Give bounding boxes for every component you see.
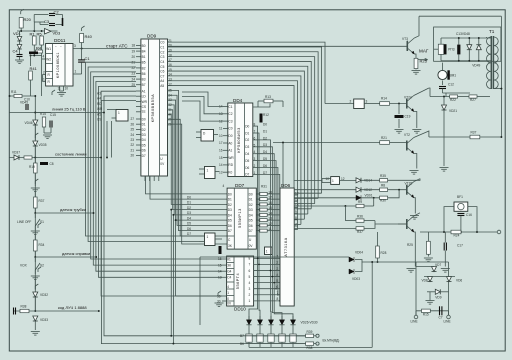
svg-text:R38: R38	[21, 305, 27, 309]
svg-text:D7: D7	[245, 173, 249, 177]
wire R1/R5 bottoms	[33, 45, 35, 56]
svg-text:−: −	[60, 45, 62, 49]
wire bus extension to DD7 C pin	[168, 119, 228, 236]
svg-text:C8: C8	[50, 162, 54, 166]
wire gate DD8.2 stubs	[199, 235, 205, 237]
svg-text:ЗК: ЗК	[227, 264, 231, 268]
svg-text:C0: C0	[228, 127, 232, 131]
capacitor C8 black	[40, 162, 48, 165]
wire VT3 collector to rail	[414, 16, 419, 38]
wire left bus bottom line b	[101, 101, 305, 344]
wire left drop x30.5	[30, 56, 32, 67]
wire LED feed vertical 1	[259, 264, 260, 319]
wire C12 down to row	[442, 89, 444, 93]
wire R41 down	[30, 80, 32, 96]
wire chain3	[34, 235, 36, 241]
wire bus C4 from DD9 right with corner	[168, 61, 312, 208]
wire датчик трубки row	[34, 208, 36, 213]
svg-text:10: 10	[219, 134, 223, 138]
svg-text:R27: R27	[470, 98, 476, 102]
svg-text:DD9: DD9	[147, 34, 157, 39]
optocoupler U1	[246, 334, 252, 342]
resistor R15b	[422, 309, 431, 312]
svg-text:D6: D6	[187, 227, 191, 231]
svg-text:C2: C2	[54, 10, 60, 15]
svg-text:В6: В6	[240, 342, 244, 346]
svg-text:D4: D4	[187, 216, 191, 220]
wire data bus vertical 0 from DD9 lower right	[168, 90, 228, 230]
ground bridge	[426, 301, 435, 305]
svg-text:18: 18	[132, 44, 136, 48]
optocoupler U3	[268, 334, 274, 342]
power flag above R40	[82, 26, 85, 31]
wire LED feed vertical 4	[274, 283, 293, 320]
resistor R39	[306, 334, 314, 337]
svg-text:D7: D7	[228, 229, 232, 233]
svg-text:555ИР13: 555ИР13	[238, 208, 242, 228]
svg-text:C13VD48: C13VD48	[456, 32, 470, 36]
capacitor C13 black	[457, 45, 460, 55]
svg-text:D1: D1	[263, 129, 267, 133]
svg-text:C3: C3	[160, 55, 164, 59]
resistor R28	[376, 246, 380, 258]
wire VT27 collector	[414, 213, 420, 216]
wire старт АТС continuation to VT3 base	[168, 45, 408, 47]
wire below C4	[19, 57, 21, 61]
svg-text:D7: D7	[187, 232, 191, 236]
wire chain VD46 down	[34, 125, 36, 140]
op IC DD4 body	[228, 103, 253, 177]
wire R30 up join	[388, 190, 400, 198]
wire diode chain left	[19, 31, 21, 37]
wire bus C6 from DD9 right with corner	[168, 71, 305, 219]
LED VD30	[290, 320, 295, 325]
svg-text:C15: C15	[50, 113, 56, 117]
wire vertical x345 down	[344, 206, 346, 221]
svg-text:DD10: DD10	[234, 307, 246, 312]
wire gate DD2.1 out	[340, 180, 357, 182]
resistor R31.7	[256, 230, 260, 232]
diode VD33	[33, 316, 38, 321]
svg-text:D3: D3	[228, 208, 232, 212]
terminal circle G1	[316, 334, 319, 337]
wire node y55.5	[31, 55, 42, 57]
svg-text:DD7: DD7	[235, 183, 245, 188]
svg-text:24: 24	[132, 77, 136, 81]
wire bus C5 from DD9 right with corner	[168, 66, 308, 214]
svg-text:R31: R31	[261, 185, 267, 189]
svg-text:LINE: LINE	[411, 320, 418, 324]
wire VT3 emitter to MAG node	[414, 54, 416, 60]
resistor R35	[380, 179, 388, 182]
diode VD32	[33, 292, 38, 297]
wire bus vertical 1 into DD6 region	[294, 192, 321, 194]
svg-text:C17: C17	[457, 244, 463, 248]
wire C2/C3 connections	[34, 14, 48, 16]
wire DD10 bottom pin row extend	[176, 295, 222, 297]
svg-text:7: 7	[277, 291, 279, 295]
svg-text:15: 15	[219, 156, 223, 160]
svg-text:VD03: VD03	[352, 277, 360, 281]
wire DD9 bottom pin to DD7 row1	[150, 176, 227, 199]
wire DD5 verticals down	[106, 121, 108, 158]
op IC DD10 body	[227, 256, 254, 306]
svg-text:C1: C1	[228, 105, 232, 109]
svg-text:D4: D4	[249, 213, 253, 217]
svg-text:CS: CS	[97, 118, 101, 122]
wire left bus line 0 from DD9	[86, 62, 200, 236]
capacitor C9 black	[29, 52, 38, 55]
logic gate DD5	[116, 110, 128, 122]
diode VD5	[432, 267, 437, 272]
resistor R14	[380, 102, 390, 106]
wire left bus line 2 from DD9	[91, 72, 222, 259]
resistor R21	[380, 141, 390, 145]
svg-text:3: 3	[249, 287, 251, 291]
svg-text:11: 11	[219, 127, 223, 131]
svg-text:R14: R14	[381, 97, 387, 101]
diode VD48	[467, 45, 472, 50]
svg-text:26: 26	[131, 122, 135, 126]
svg-text:КР580ВИ53: КР580ВИ53	[237, 127, 241, 153]
svg-text:ЗК: ЗК	[228, 244, 232, 248]
svg-text:CS: CS	[142, 105, 146, 109]
svg-text:5: 5	[249, 275, 251, 279]
svg-text:3: 3	[74, 44, 76, 48]
wire R20 to node	[20, 28, 22, 31]
wire VT26 emitter	[414, 198, 416, 214]
svg-text:R22: R22	[450, 98, 456, 102]
wire VT26 collector	[414, 179, 420, 182]
svg-text:D4: D4	[245, 152, 249, 156]
resistor R31.1	[256, 198, 260, 200]
transistor VT27	[407, 216, 414, 232]
svg-text:14: 14	[219, 163, 223, 167]
wire bus C0 from DD9 right with corner	[168, 42, 326, 103]
svg-text:R20: R20	[24, 17, 32, 22]
resistor R40	[80, 34, 84, 43]
wire bundle extension down left of DD10 a	[170, 210, 172, 336]
svg-text:D6: D6	[249, 224, 253, 228]
wire bundle extension down left of DD10 c	[175, 220, 177, 296]
resistor R41	[29, 71, 33, 80]
wire bus vertical 9 into DD6 region	[293, 234, 295, 236]
svg-text:D0: D0	[187, 195, 191, 199]
svg-text:5: 5	[254, 143, 256, 147]
svg-text:3: 3	[254, 157, 256, 161]
wire left chain main vertical	[34, 96, 36, 311]
svg-text:D0: D0	[249, 192, 253, 196]
wire VD12 row	[294, 189, 356, 191]
svg-text:0: 0	[227, 297, 229, 301]
wire R8 to VT26 base	[388, 189, 407, 191]
wire data bus vertical 2 from DD9 lower right	[168, 100, 228, 220]
wire DD10 pin row 0 to DD6	[254, 257, 280, 259]
wire chain5	[34, 322, 36, 331]
wire DD10 pin row 2 to DD6	[254, 269, 280, 271]
wire left bus line 3 from DD9	[93, 77, 222, 265]
wire DD10 pin row 6 to DD6	[254, 294, 280, 296]
svg-text:R35: R35	[380, 174, 386, 178]
wire VT24 collector to R22 row	[429, 88, 430, 97]
resistor R31.5	[256, 219, 260, 221]
svg-text:D0: D0	[228, 192, 232, 196]
wire bus C2 from DD9 right with corner	[168, 52, 319, 199]
wire diode rows	[416, 266, 434, 268]
wire chain middle	[34, 146, 36, 163]
svg-text:D3: D3	[187, 211, 191, 215]
resistor R38 chain	[20, 309, 29, 312]
optocoupler U5	[290, 334, 296, 342]
ground C17	[441, 269, 450, 273]
svg-text:A0: A0	[228, 141, 232, 145]
svg-text:D5: D5	[187, 222, 191, 226]
wire bus C8 from DD9 right with corner	[168, 81, 298, 230]
svg-text:VD3: VD3	[53, 31, 62, 36]
capacitor C17	[444, 243, 446, 251]
svg-text:B7: B7	[142, 83, 146, 87]
wire линия row	[10, 112, 105, 114]
svg-text:10: 10	[65, 87, 69, 91]
svg-text:15: 15	[268, 206, 272, 210]
resistor R8	[380, 188, 388, 191]
svg-text:36: 36	[217, 294, 221, 298]
wire DD9 bottom pin to DD7 row0	[146, 176, 228, 194]
microphone BM1 electrode bar	[447, 70, 449, 79]
svg-text:VD04: VD04	[355, 251, 363, 255]
resistor R31.2	[256, 203, 260, 205]
wire VT2 collector	[414, 131, 429, 138]
wire bus DB6 vertical right of DD7	[257, 168, 278, 295]
resistor R38b	[356, 227, 364, 230]
svg-text:15: 15	[218, 263, 222, 267]
diode VD12	[356, 187, 361, 192]
capacitor C14 chain	[14, 308, 16, 315]
svg-text:КР1008ВЖ1: КР1008ВЖ1	[56, 52, 60, 78]
buffer gate DD1	[45, 29, 52, 35]
wire chain below R19	[34, 173, 36, 186]
svg-text:R25: R25	[407, 243, 413, 247]
resistor R38 output	[306, 342, 314, 345]
svg-text:D7: D7	[142, 154, 146, 158]
logic gate DD8.2	[205, 233, 216, 246]
svg-text:3: 3	[277, 267, 279, 271]
diode VD01 black	[356, 195, 361, 200]
svg-text:VD7: VD7	[435, 263, 441, 267]
svg-text:C1: C1	[85, 56, 91, 61]
svg-text:22: 22	[131, 143, 135, 147]
ground below R23	[415, 68, 417, 71]
wire chain4	[34, 280, 36, 290]
svg-text:C3: C3	[228, 119, 232, 123]
svg-text:R13: R13	[265, 95, 271, 99]
svg-text:−: −	[55, 45, 57, 49]
svg-text:DD6: DD6	[281, 183, 291, 188]
wire bus vertical 6 into DD6 region	[294, 218, 304, 220]
wire DD10 bottom-left pins	[222, 295, 227, 297]
wire left bus bottom line a	[104, 96, 306, 336]
diode VD04 black	[349, 257, 354, 262]
wire row y257 to diodes	[200, 256, 349, 258]
wire DD10 pin row 3 to DD6	[254, 276, 280, 278]
svg-text:VD26-VD30: VD26-VD30	[301, 321, 318, 325]
wire DD10 pin row 5 to DD6	[254, 288, 280, 290]
wire left bus line 1 from DD9	[88, 67, 199, 241]
wire data bus vertical 3 from DD9 lower right	[168, 105, 228, 215]
svg-text:код ЛУЧ 1 8888: код ЛУЧ 1 8888	[58, 305, 87, 310]
wire датчик справки row	[34, 251, 36, 257]
wire to VT27 base	[375, 223, 407, 225]
svg-text:C2: C2	[228, 112, 232, 116]
svg-text:T1: T1	[489, 29, 495, 34]
svg-text:D3: D3	[142, 133, 146, 137]
svg-text:VD46: VD46	[25, 121, 33, 125]
svg-text:W2: W2	[46, 58, 51, 62]
svg-text:4: 4	[223, 184, 225, 188]
diode VD46	[33, 120, 38, 125]
wire bridge bottom row	[416, 310, 449, 312]
wire bus C1 from DD9 right with corner	[168, 47, 322, 193]
svg-text:TE: TE	[142, 110, 146, 114]
svg-text:C12: C12	[448, 83, 454, 87]
microphone BM1	[442, 63, 444, 71]
wire T1 primary top in	[486, 37, 488, 38]
svg-text:VD1: VD1	[13, 31, 22, 36]
svg-text:R19: R19	[29, 165, 35, 169]
svg-text:D5: D5	[245, 159, 249, 163]
capacitor C2	[49, 14, 55, 16]
ground VT27	[407, 269, 416, 273]
svg-text:10: 10	[326, 177, 330, 181]
wire right side drop from supply rail	[500, 16, 502, 137]
wire bus vertical 7 into DD6 region	[294, 223, 301, 225]
wire R36 row	[345, 220, 356, 222]
transformer T1 primary winding	[487, 37, 491, 89]
svg-text:1: 1	[249, 299, 251, 303]
wire gate DD8.1 stubs	[199, 168, 205, 170]
wire relay left stub	[434, 48, 439, 50]
wires DD4 upper-left feeds	[182, 92, 223, 107]
power flag chain2	[35, 179, 38, 184]
svg-text:D0: D0	[228, 134, 232, 138]
svg-text:VOX: VOX	[20, 264, 28, 268]
wire bus extension to DD7 ZK pin	[168, 124, 228, 244]
wire DD11 vertical feed x41.6	[41, 59, 43, 96]
svg-text:D4: D4	[142, 138, 146, 142]
svg-text:16: 16	[268, 201, 272, 205]
svg-text:датчик трубки: датчик трубки	[60, 207, 86, 212]
svg-text:A5: A5	[160, 84, 164, 88]
svg-text:VD8: VD8	[422, 279, 428, 283]
wire amplifier row y103.5	[325, 103, 354, 105]
svg-text:D6: D6	[228, 224, 232, 228]
svg-text:R21: R21	[381, 136, 387, 140]
wire R35 to VT26 collector	[388, 179, 420, 181]
resistor R23	[414, 58, 418, 68]
wire bus DB3 vertical right of DD7	[257, 147, 272, 277]
svg-text:A4: A4	[97, 97, 101, 101]
svg-text:R38: R38	[307, 346, 313, 350]
wire код row	[34, 297, 36, 311]
LED VD28	[268, 320, 273, 325]
svg-text:1: 1	[254, 171, 256, 175]
power flag DD10	[218, 291, 221, 296]
svg-text:D0: D0	[142, 117, 146, 121]
diode VD37	[14, 155, 19, 160]
svg-text:B6: B6	[142, 72, 146, 76]
resistor R22	[450, 95, 458, 98]
svg-text:VD01: VD01	[365, 194, 373, 198]
wire bus vertical 3 into DD6 region	[294, 203, 314, 205]
svg-text:4: 4	[43, 55, 45, 59]
svg-text:1: 1	[332, 179, 334, 183]
ground VT26	[410, 216, 419, 220]
LED VD26	[246, 320, 251, 325]
wire C16 down	[460, 216, 462, 232]
svg-text:R40: R40	[85, 34, 93, 39]
svg-text:D1: D1	[249, 198, 253, 202]
svg-text:R12: R12	[263, 113, 269, 117]
op IC DD11 body	[46, 44, 73, 87]
wire bus DB0 vertical right of DD7	[256, 126, 259, 258]
svg-text:C19: C19	[405, 115, 411, 119]
svg-text:R28: R28	[381, 251, 387, 255]
svg-text:14: 14	[218, 269, 222, 273]
svg-text:VD9: VD9	[435, 296, 441, 300]
svg-text:ВМ1: ВМ1	[450, 74, 457, 78]
svg-text:Вх.МГн(ВД): Вх.МГн(ВД)	[323, 339, 340, 343]
svg-text:D1: D1	[245, 131, 249, 135]
svg-text:R37: R37	[357, 230, 363, 234]
wire bus vertical 2 into DD6 region	[294, 197, 318, 199]
svg-text:D5: D5	[142, 143, 146, 147]
wire C19 vertical	[398, 104, 400, 115]
wire bus C9 from DD9 right with corner	[168, 86, 295, 235]
wire bus C3 from DD9 right with corner	[168, 57, 315, 204]
wire riser to bridge row	[371, 262, 373, 347]
svg-text:LD: LD	[142, 95, 147, 99]
diode VD9	[435, 289, 440, 294]
diode VD03 black	[349, 269, 354, 274]
svg-text:R36: R36	[357, 215, 363, 219]
svg-text:R5: R5	[37, 32, 43, 37]
logic gate DD8.3	[201, 130, 214, 142]
svg-text:4: 4	[277, 273, 279, 277]
resistor R11	[14, 94, 22, 97]
svg-text:8: 8	[254, 123, 256, 127]
ground chain2	[31, 188, 40, 192]
svg-text:VD35: VD35	[39, 143, 47, 147]
svg-text:1: 1	[207, 235, 209, 239]
capacitor C7	[440, 306, 442, 315]
svg-text:R39: R39	[307, 330, 313, 334]
wire bus DB2 vertical right of DD7	[257, 140, 271, 271]
wire bus DB5 vertical right of DD7	[257, 161, 276, 289]
svg-text:2: 2	[277, 261, 279, 265]
wire R37 row y137 to right edge	[429, 136, 502, 138]
svg-text:RD: RD	[228, 163, 233, 167]
svg-text:B1: B1	[142, 55, 146, 59]
svg-text:VD21: VD21	[449, 109, 457, 113]
svg-text:C6: C6	[160, 70, 164, 74]
wire chain2 gap	[34, 192, 36, 197]
svg-text:состояние линии: состояние линии	[55, 152, 86, 157]
svg-text:6: 6	[277, 285, 279, 289]
wire left bus line 5 from DD9	[99, 86, 223, 277]
capacitor C3	[49, 24, 55, 26]
power flag top-left	[21, 9, 24, 14]
wire R28 drop	[377, 232, 379, 246]
